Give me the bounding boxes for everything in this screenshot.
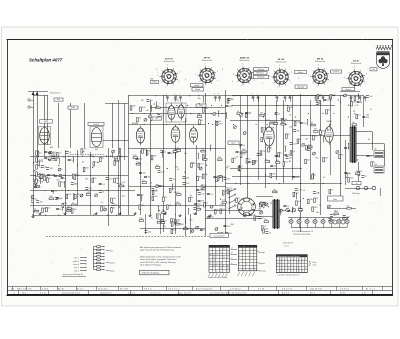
svg-text:100: 100: [109, 178, 112, 180]
svg-text:Masse: Masse: [110, 271, 115, 273]
svg-text:10n: 10n: [205, 174, 208, 176]
svg-text:Röhrensockel: Röhrensockel: [164, 60, 175, 63]
svg-text:30: 30: [173, 179, 175, 181]
svg-text:15k: 15k: [177, 148, 180, 150]
svg-text:47k: 47k: [249, 113, 252, 115]
svg-text:5k: 5k: [248, 159, 250, 161]
svg-text:5n: 5n: [319, 104, 321, 106]
svg-text:Alle Spannungen gemessen mit R: Alle Spannungen gemessen mit Röhrenvoltm…: [140, 246, 182, 249]
svg-text:Ausf. B geprüft: Ausf. B geprüft: [196, 288, 212, 291]
svg-text:braun 8: braun 8: [73, 263, 79, 266]
svg-text:blau 2: blau 2: [74, 258, 79, 260]
svg-text:0,25: 0,25: [355, 105, 359, 107]
svg-text:0,1: 0,1: [285, 162, 288, 164]
svg-text:a1: a1: [231, 247, 233, 249]
svg-text:30: 30: [360, 171, 362, 173]
svg-text:4: 4: [318, 64, 319, 66]
svg-text:1M: 1M: [184, 226, 187, 228]
svg-text:5k: 5k: [102, 191, 104, 193]
svg-text:0,5: 0,5: [292, 151, 295, 153]
svg-text:10k: 10k: [162, 210, 165, 212]
svg-text:0,5: 0,5: [177, 192, 180, 194]
svg-text:100: 100: [140, 195, 143, 197]
svg-text:EL84: EL84: [266, 120, 270, 122]
svg-text:85: 85: [227, 268, 229, 270]
svg-text:5: 5: [366, 73, 367, 75]
svg-text:Hz: Hz: [372, 69, 374, 71]
svg-text:47k: 47k: [356, 96, 359, 98]
svg-text:A 4 B 8: A 4 B 8: [282, 292, 289, 295]
svg-text:EL 84: EL 84: [278, 58, 285, 61]
svg-text:5n: 5n: [280, 153, 282, 155]
svg-text:Lspr.: Lspr.: [374, 164, 378, 166]
svg-text:0,1: 0,1: [102, 184, 105, 186]
svg-text:10k: 10k: [270, 121, 273, 123]
svg-text:1,2: 1,2: [216, 263, 218, 265]
svg-text:85: 85: [227, 265, 229, 267]
svg-text:1k: 1k: [370, 109, 372, 111]
svg-text:1M: 1M: [289, 126, 292, 128]
svg-text:47k: 47k: [133, 155, 136, 157]
svg-text:50k: 50k: [366, 117, 369, 119]
svg-text:0,25: 0,25: [171, 153, 175, 155]
svg-text:30: 30: [150, 183, 152, 185]
svg-text:Röhrensockel: Röhrensockel: [276, 61, 287, 64]
svg-text:gelb 0,5: gelb 0,5: [73, 261, 79, 263]
svg-text:200: 200: [366, 115, 369, 117]
svg-text:0,5: 0,5: [55, 191, 58, 193]
svg-text:15k: 15k: [325, 158, 328, 160]
svg-text:2k: 2k: [190, 195, 192, 197]
svg-text:350: 350: [273, 189, 276, 191]
svg-text:0,25: 0,25: [298, 189, 302, 191]
svg-text:500: 500: [227, 178, 230, 180]
svg-text:8k: 8k: [39, 174, 41, 176]
svg-text:a: a: [257, 94, 258, 96]
svg-text:200: 200: [175, 167, 178, 169]
svg-text:AM: AM: [50, 146, 53, 149]
svg-text:1 2 3 4: 1 2 3 4: [284, 245, 289, 247]
svg-text:1k: 1k: [136, 162, 138, 164]
svg-text:47k: 47k: [143, 173, 146, 175]
svg-text:5n: 5n: [269, 232, 271, 234]
svg-text:Leucht: Leucht: [333, 70, 339, 73]
svg-text:200: 200: [139, 218, 142, 220]
svg-text:Schichtw.: Schichtw.: [98, 288, 108, 291]
svg-text:500: 500: [314, 207, 317, 209]
svg-text:4: 4: [279, 65, 280, 67]
svg-text:110V 125V 220V 240V: 110V 125V 220V 240V: [293, 234, 311, 236]
svg-text:10n: 10n: [332, 95, 335, 97]
svg-text:25: 25: [115, 204, 117, 206]
svg-text:200: 200: [50, 175, 53, 177]
svg-text:0,5: 0,5: [177, 169, 180, 171]
svg-text:10n: 10n: [113, 198, 116, 200]
svg-text:10k: 10k: [197, 114, 200, 116]
svg-text:4: 4: [354, 66, 355, 68]
svg-text:2 3 4 5 1 2: 2 3 4 5 1 2: [168, 289, 180, 291]
svg-text:1k: 1k: [164, 151, 166, 153]
svg-text:1M: 1M: [258, 209, 261, 211]
svg-text:10n: 10n: [307, 159, 310, 161]
svg-text:1M: 1M: [297, 130, 300, 132]
svg-text:1k: 1k: [205, 155, 207, 157]
svg-text:0,5: 0,5: [44, 208, 47, 210]
svg-text:NF-Vorst.: NF-Vorst.: [256, 72, 264, 75]
svg-text:47k: 47k: [298, 201, 301, 203]
svg-text:500: 500: [356, 171, 359, 173]
svg-text:1k: 1k: [265, 159, 267, 161]
svg-text:5n: 5n: [72, 202, 74, 204]
svg-text:soweit nicht anders angegeben.: soweit nicht anders angegeben. Toleranze…: [140, 258, 176, 261]
svg-text:50k: 50k: [174, 192, 177, 194]
svg-text:25: 25: [63, 157, 65, 159]
svg-text:15k: 15k: [305, 138, 308, 140]
svg-text:1,2: 1,2: [220, 263, 222, 265]
svg-text:1: 1: [14, 293, 15, 295]
svg-text:0,25: 0,25: [293, 143, 297, 145]
svg-text:10n: 10n: [289, 158, 292, 160]
svg-text:Röhrensockel: Röhrensockel: [202, 59, 213, 62]
svg-text:2: 2: [165, 86, 166, 88]
svg-text:4: 4: [242, 63, 243, 65]
svg-text:5k: 5k: [299, 139, 301, 141]
svg-text:1M: 1M: [153, 156, 156, 158]
svg-text:200: 200: [198, 204, 201, 206]
svg-text:10n: 10n: [52, 160, 55, 162]
svg-text:200: 200: [154, 196, 157, 198]
svg-text:10n: 10n: [120, 156, 123, 158]
svg-text:85: 85: [223, 257, 225, 259]
svg-text:350: 350: [219, 123, 222, 125]
svg-text:2: 2: [316, 86, 317, 88]
svg-text:5n: 5n: [352, 122, 354, 124]
svg-text:1M: 1M: [290, 107, 293, 109]
svg-text:1M: 1M: [201, 201, 204, 203]
svg-text:15k: 15k: [40, 201, 43, 203]
svg-text:25: 25: [203, 230, 205, 232]
svg-text:1: 1: [254, 80, 255, 82]
svg-text:10n: 10n: [255, 160, 258, 162]
svg-text:47k: 47k: [310, 199, 313, 201]
svg-text:85: 85: [210, 263, 212, 265]
svg-text:Ra Rb Rc Rd: Ra Rb Rc Rd: [283, 243, 293, 245]
svg-text:10n: 10n: [116, 161, 119, 163]
svg-text:4 b 11: 4 b 11: [40, 293, 46, 295]
svg-text:0,1: 0,1: [67, 208, 70, 210]
svg-text:0,5: 0,5: [150, 100, 153, 102]
svg-text:Sperrkr.: Sperrkr.: [110, 262, 116, 265]
svg-text:K L M: K L M: [258, 289, 264, 291]
svg-text:Röhrensockel: Röhrensockel: [239, 59, 250, 62]
svg-text:4,7kΩ: 4,7kΩ: [42, 289, 49, 291]
svg-text:0,1: 0,1: [298, 207, 301, 209]
svg-text:Gedruckte Schaltung: Gedruckte Schaltung: [142, 272, 160, 275]
svg-text:500: 500: [148, 231, 151, 233]
svg-text:50k: 50k: [308, 146, 311, 148]
svg-text:0,1: 0,1: [210, 194, 213, 196]
svg-text:350: 350: [189, 220, 192, 222]
svg-text:5k: 5k: [60, 209, 62, 211]
svg-text:gegen Chassis bei 220 V Netzsp: gegen Chassis bei 220 V Netzspannung: [140, 248, 174, 251]
svg-text:10k: 10k: [316, 212, 319, 214]
svg-text:8k: 8k: [93, 157, 95, 159]
svg-text:Spannungen an den Röhren: Spannungen an den Röhren: [277, 256, 300, 258]
svg-text:30: 30: [164, 220, 166, 222]
svg-text:Schaltbild 4077 Ausf. Westfali: Schaltbild 4077 Ausf. Westfalia Kl 2a: [210, 292, 247, 295]
svg-text:1k: 1k: [101, 202, 103, 204]
svg-text:85: 85: [213, 265, 215, 267]
svg-text:350: 350: [231, 224, 234, 226]
svg-text:W 48: W 48: [340, 293, 345, 295]
svg-text:Widerstandswerte in Ohm, Konde: Widerstandswerte in Ohm, Kondensatoren i…: [140, 256, 181, 259]
svg-text:Netz: Netz: [333, 198, 337, 201]
svg-text:5n: 5n: [370, 156, 372, 158]
svg-text:gepr. 12.4.52: gepr. 12.4.52: [178, 293, 191, 295]
svg-text:5k: 5k: [360, 102, 362, 104]
svg-text:48 b: 48 b: [22, 293, 26, 295]
svg-text:15k: 15k: [68, 194, 71, 196]
svg-text:0,25: 0,25: [296, 122, 300, 124]
svg-text:500: 500: [242, 149, 245, 151]
svg-text:1M: 1M: [159, 214, 162, 216]
svg-text:5: 5: [291, 72, 292, 74]
svg-text:Messung: Messung: [259, 270, 266, 272]
svg-text:15k: 15k: [163, 226, 166, 228]
svg-text:Ratiof.: Ratiof.: [195, 88, 201, 91]
svg-text:15k: 15k: [122, 182, 125, 184]
svg-text:200: 200: [201, 149, 204, 151]
svg-text:1: 1: [216, 80, 217, 82]
svg-text:30: 30: [201, 120, 203, 122]
svg-text:1M: 1M: [141, 205, 144, 207]
svg-text:500: 500: [186, 177, 189, 179]
svg-text:15k: 15k: [74, 209, 77, 211]
svg-text:Bl 2 C: Bl 2 C: [77, 289, 84, 291]
svg-text:5k: 5k: [256, 216, 258, 218]
svg-text:1: 1: [178, 81, 179, 83]
svg-text:200: 200: [218, 157, 221, 159]
svg-text:25: 25: [213, 257, 215, 259]
svg-text:1M: 1M: [264, 219, 267, 221]
svg-text:5n: 5n: [348, 173, 350, 175]
svg-text:10n: 10n: [200, 163, 203, 165]
svg-text:15k: 15k: [169, 205, 172, 207]
svg-text:350: 350: [181, 224, 184, 226]
svg-text:Schirm: Schirm: [298, 72, 304, 74]
svg-text:25: 25: [227, 257, 229, 259]
svg-text:1: 1: [365, 83, 366, 85]
svg-text:15k: 15k: [251, 162, 254, 164]
svg-text:6: 6: [156, 69, 157, 71]
svg-text:2k: 2k: [373, 162, 375, 164]
svg-text:5: 5: [217, 70, 218, 72]
svg-text:1M: 1M: [260, 113, 263, 115]
svg-text:2k: 2k: [94, 178, 96, 180]
svg-text:500: 500: [85, 167, 88, 169]
svg-text:500: 500: [38, 187, 41, 189]
svg-text:25: 25: [213, 263, 215, 265]
svg-text:Endstufe: Endstufe: [257, 76, 264, 79]
svg-text:Richtantenne: Richtantenne: [50, 92, 61, 95]
svg-text:3: 3: [269, 75, 270, 77]
svg-text:FM: FM: [95, 149, 98, 151]
svg-text:1M: 1M: [191, 163, 194, 165]
svg-text:0,1: 0,1: [335, 210, 338, 212]
svg-text:0,25: 0,25: [346, 216, 350, 218]
svg-text:85: 85: [223, 249, 225, 251]
svg-text:1M: 1M: [314, 129, 317, 131]
svg-text:30: 30: [148, 151, 150, 153]
svg-text:50k: 50k: [56, 179, 59, 181]
svg-text:8k: 8k: [270, 148, 272, 150]
svg-text:30: 30: [243, 145, 245, 147]
svg-text:30: 30: [347, 206, 349, 208]
svg-text:5k: 5k: [323, 177, 325, 179]
svg-text:1k: 1k: [303, 190, 305, 192]
svg-text:200: 200: [197, 207, 200, 209]
svg-text:4: 4: [205, 63, 206, 65]
svg-text:8k: 8k: [236, 157, 238, 159]
svg-text:10n: 10n: [75, 184, 78, 186]
svg-text:2: 2: [232, 81, 233, 83]
svg-text:b2: b2: [231, 263, 233, 265]
svg-text:2k: 2k: [102, 157, 104, 159]
svg-text:8k: 8k: [191, 197, 193, 199]
svg-text:Anzeige: Anzeige: [298, 85, 305, 88]
svg-text:a: a: [166, 94, 167, 96]
svg-text:0,25: 0,25: [227, 226, 231, 228]
svg-text:500: 500: [186, 183, 189, 185]
svg-text:10k: 10k: [218, 121, 221, 123]
svg-text:8k: 8k: [184, 172, 186, 174]
svg-text:25: 25: [48, 207, 50, 209]
svg-text:5k: 5k: [206, 203, 208, 205]
svg-text:1k: 1k: [278, 113, 280, 115]
svg-text:30: 30: [315, 136, 317, 138]
svg-text:Drehko: Drehko: [93, 124, 99, 126]
svg-text:5k: 5k: [34, 208, 36, 210]
svg-text:5: 5: [298, 78, 299, 80]
svg-text:Netz: Netz: [110, 250, 114, 253]
svg-text:15k: 15k: [260, 201, 263, 203]
svg-text:500: 500: [49, 196, 52, 198]
svg-text:15k: 15k: [89, 188, 92, 190]
svg-text:Sperr: Sperr: [231, 142, 236, 144]
svg-text:6,3V 0,3A Skalenlampen 7V: 6,3V 0,3A Skalenlampen 7V: [292, 230, 314, 233]
svg-text:5k: 5k: [310, 149, 312, 151]
svg-text:5k: 5k: [237, 111, 239, 113]
svg-text:7: 7: [262, 83, 263, 85]
svg-text:8k: 8k: [311, 122, 313, 124]
svg-text:4 8 12 50: 4 8 12 50: [282, 289, 292, 291]
svg-text:EABC 80: EABC 80: [240, 57, 250, 60]
svg-text:200: 200: [176, 222, 179, 224]
svg-text:Bandf.: Bandf.: [194, 85, 200, 87]
svg-text:10n: 10n: [198, 98, 201, 100]
svg-text:500: 500: [265, 229, 268, 231]
svg-text:Chassisboden: Chassisboden: [214, 236, 225, 238]
svg-text:50k: 50k: [49, 155, 52, 157]
svg-text:8k: 8k: [57, 176, 59, 178]
svg-text:a1: a1: [231, 258, 233, 260]
svg-text:0,5: 0,5: [238, 198, 241, 200]
svg-text:3: 3: [195, 74, 196, 76]
svg-text:15k: 15k: [148, 177, 151, 179]
svg-text:gemessen bei Stellung TA: gemessen bei Stellung TA: [63, 273, 83, 276]
svg-text:AZ 41: AZ 41: [353, 60, 360, 63]
svg-text:R101: R101: [152, 82, 156, 84]
svg-text:0,1: 0,1: [288, 134, 291, 136]
svg-text:M 1:1: M 1:1: [310, 293, 316, 295]
svg-text:47k: 47k: [317, 96, 320, 98]
svg-text:3: 3: [344, 77, 345, 79]
svg-text:abgeglichen: abgeglichen: [100, 293, 112, 295]
svg-text:1,2: 1,2: [220, 268, 222, 270]
svg-text:200: 200: [116, 178, 119, 180]
svg-text:0,8A träge: 0,8A träge: [352, 192, 360, 195]
svg-text:2: 2: [203, 85, 204, 87]
svg-text:3: 3: [157, 75, 158, 77]
svg-text:10k: 10k: [353, 102, 356, 104]
svg-text:25: 25: [142, 180, 144, 182]
svg-text:200: 200: [156, 165, 159, 167]
svg-text:10n: 10n: [274, 166, 277, 168]
svg-text:1M: 1M: [141, 100, 144, 102]
svg-text:47k: 47k: [61, 182, 64, 184]
svg-text:Gd: Gd: [11, 289, 14, 291]
svg-text:8k: 8k: [113, 208, 115, 210]
svg-text:100: 100: [60, 198, 63, 200]
svg-text:500: 500: [296, 177, 299, 179]
svg-text:0,25: 0,25: [86, 192, 90, 194]
svg-text:grün 4: grün 4: [74, 266, 79, 269]
svg-text:30: 30: [341, 154, 343, 156]
svg-text:350: 350: [220, 204, 223, 206]
svg-text:EM 34: EM 34: [317, 58, 324, 61]
svg-text:8k: 8k: [354, 161, 356, 163]
svg-text:200: 200: [229, 233, 232, 235]
svg-text:ohne Signal am Eingang.: ohne Signal am Eingang.: [140, 264, 162, 266]
svg-text:2k: 2k: [39, 181, 41, 183]
svg-text:Regelsp.: Regelsp.: [257, 69, 265, 71]
svg-text:4,77 M 12: 4,77 M 12: [230, 289, 241, 291]
svg-text:Bl. 1 v 2: Bl. 1 v 2: [366, 289, 375, 291]
svg-text:100: 100: [203, 185, 206, 187]
svg-text:3: 3: [308, 75, 309, 77]
svg-text:blau 2: blau 2: [74, 270, 79, 272]
svg-text:47k: 47k: [133, 106, 136, 108]
svg-text:1: 1: [329, 81, 330, 83]
svg-text:85: 85: [210, 254, 212, 256]
svg-text:2k: 2k: [139, 118, 141, 120]
svg-text:10k: 10k: [173, 229, 176, 231]
svg-text:b2: b2: [231, 253, 233, 255]
svg-text:2k: 2k: [328, 110, 330, 112]
svg-text:1M: 1M: [327, 100, 330, 102]
svg-text:10n: 10n: [276, 160, 279, 162]
svg-text:30: 30: [333, 215, 335, 217]
svg-text:25: 25: [314, 175, 316, 177]
svg-text:3: 3: [185, 79, 186, 81]
svg-text:25: 25: [319, 205, 321, 207]
svg-text:10k: 10k: [205, 108, 208, 110]
svg-text:25: 25: [365, 176, 367, 178]
svg-text:2 6 8 4 1: 2 6 8 4 1: [340, 289, 350, 291]
svg-text:47k: 47k: [85, 179, 88, 181]
svg-text:30: 30: [151, 218, 153, 220]
svg-text:EM34: EM34: [327, 121, 332, 123]
